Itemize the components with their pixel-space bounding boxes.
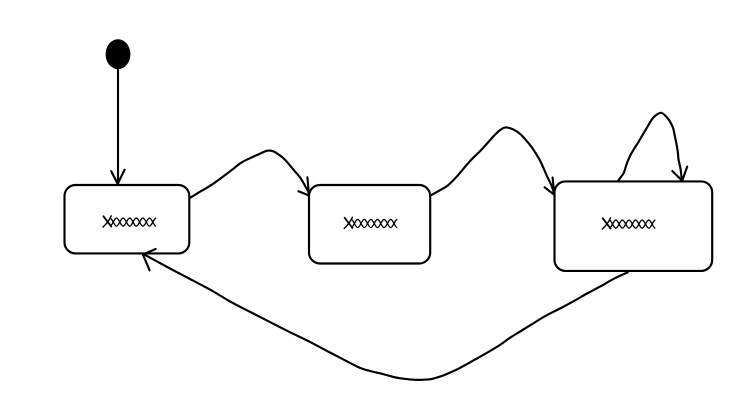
initial state (filled circle) [106,39,131,69]
wire: initial circle to state 1 [117,68,119,184]
wire: state 3 back to state 1 (long return curve) [144,254,629,380]
arrowhead into state 1 bottom [143,249,156,270]
state 1 label Xxxxxxx [103,215,157,227]
wire: self-loop on state 3 [618,113,682,182]
state 3 label Xxxxxxx [602,217,656,229]
state box 3 [555,181,713,271]
arrowhead of self-loop into state 3 top [672,167,687,181]
state box 1 [65,185,190,253]
arrowhead into state 3 [545,178,555,195]
wire: state 2 to state 3 (curved) [431,127,555,195]
arrowhead into state 2 [298,177,309,195]
state box 2 [309,185,430,264]
wire: state 1 to state 2 (curved) [190,150,309,197]
state 2 label Xxxxxxx [344,217,398,229]
arrowhead into state 1 top [111,170,124,184]
